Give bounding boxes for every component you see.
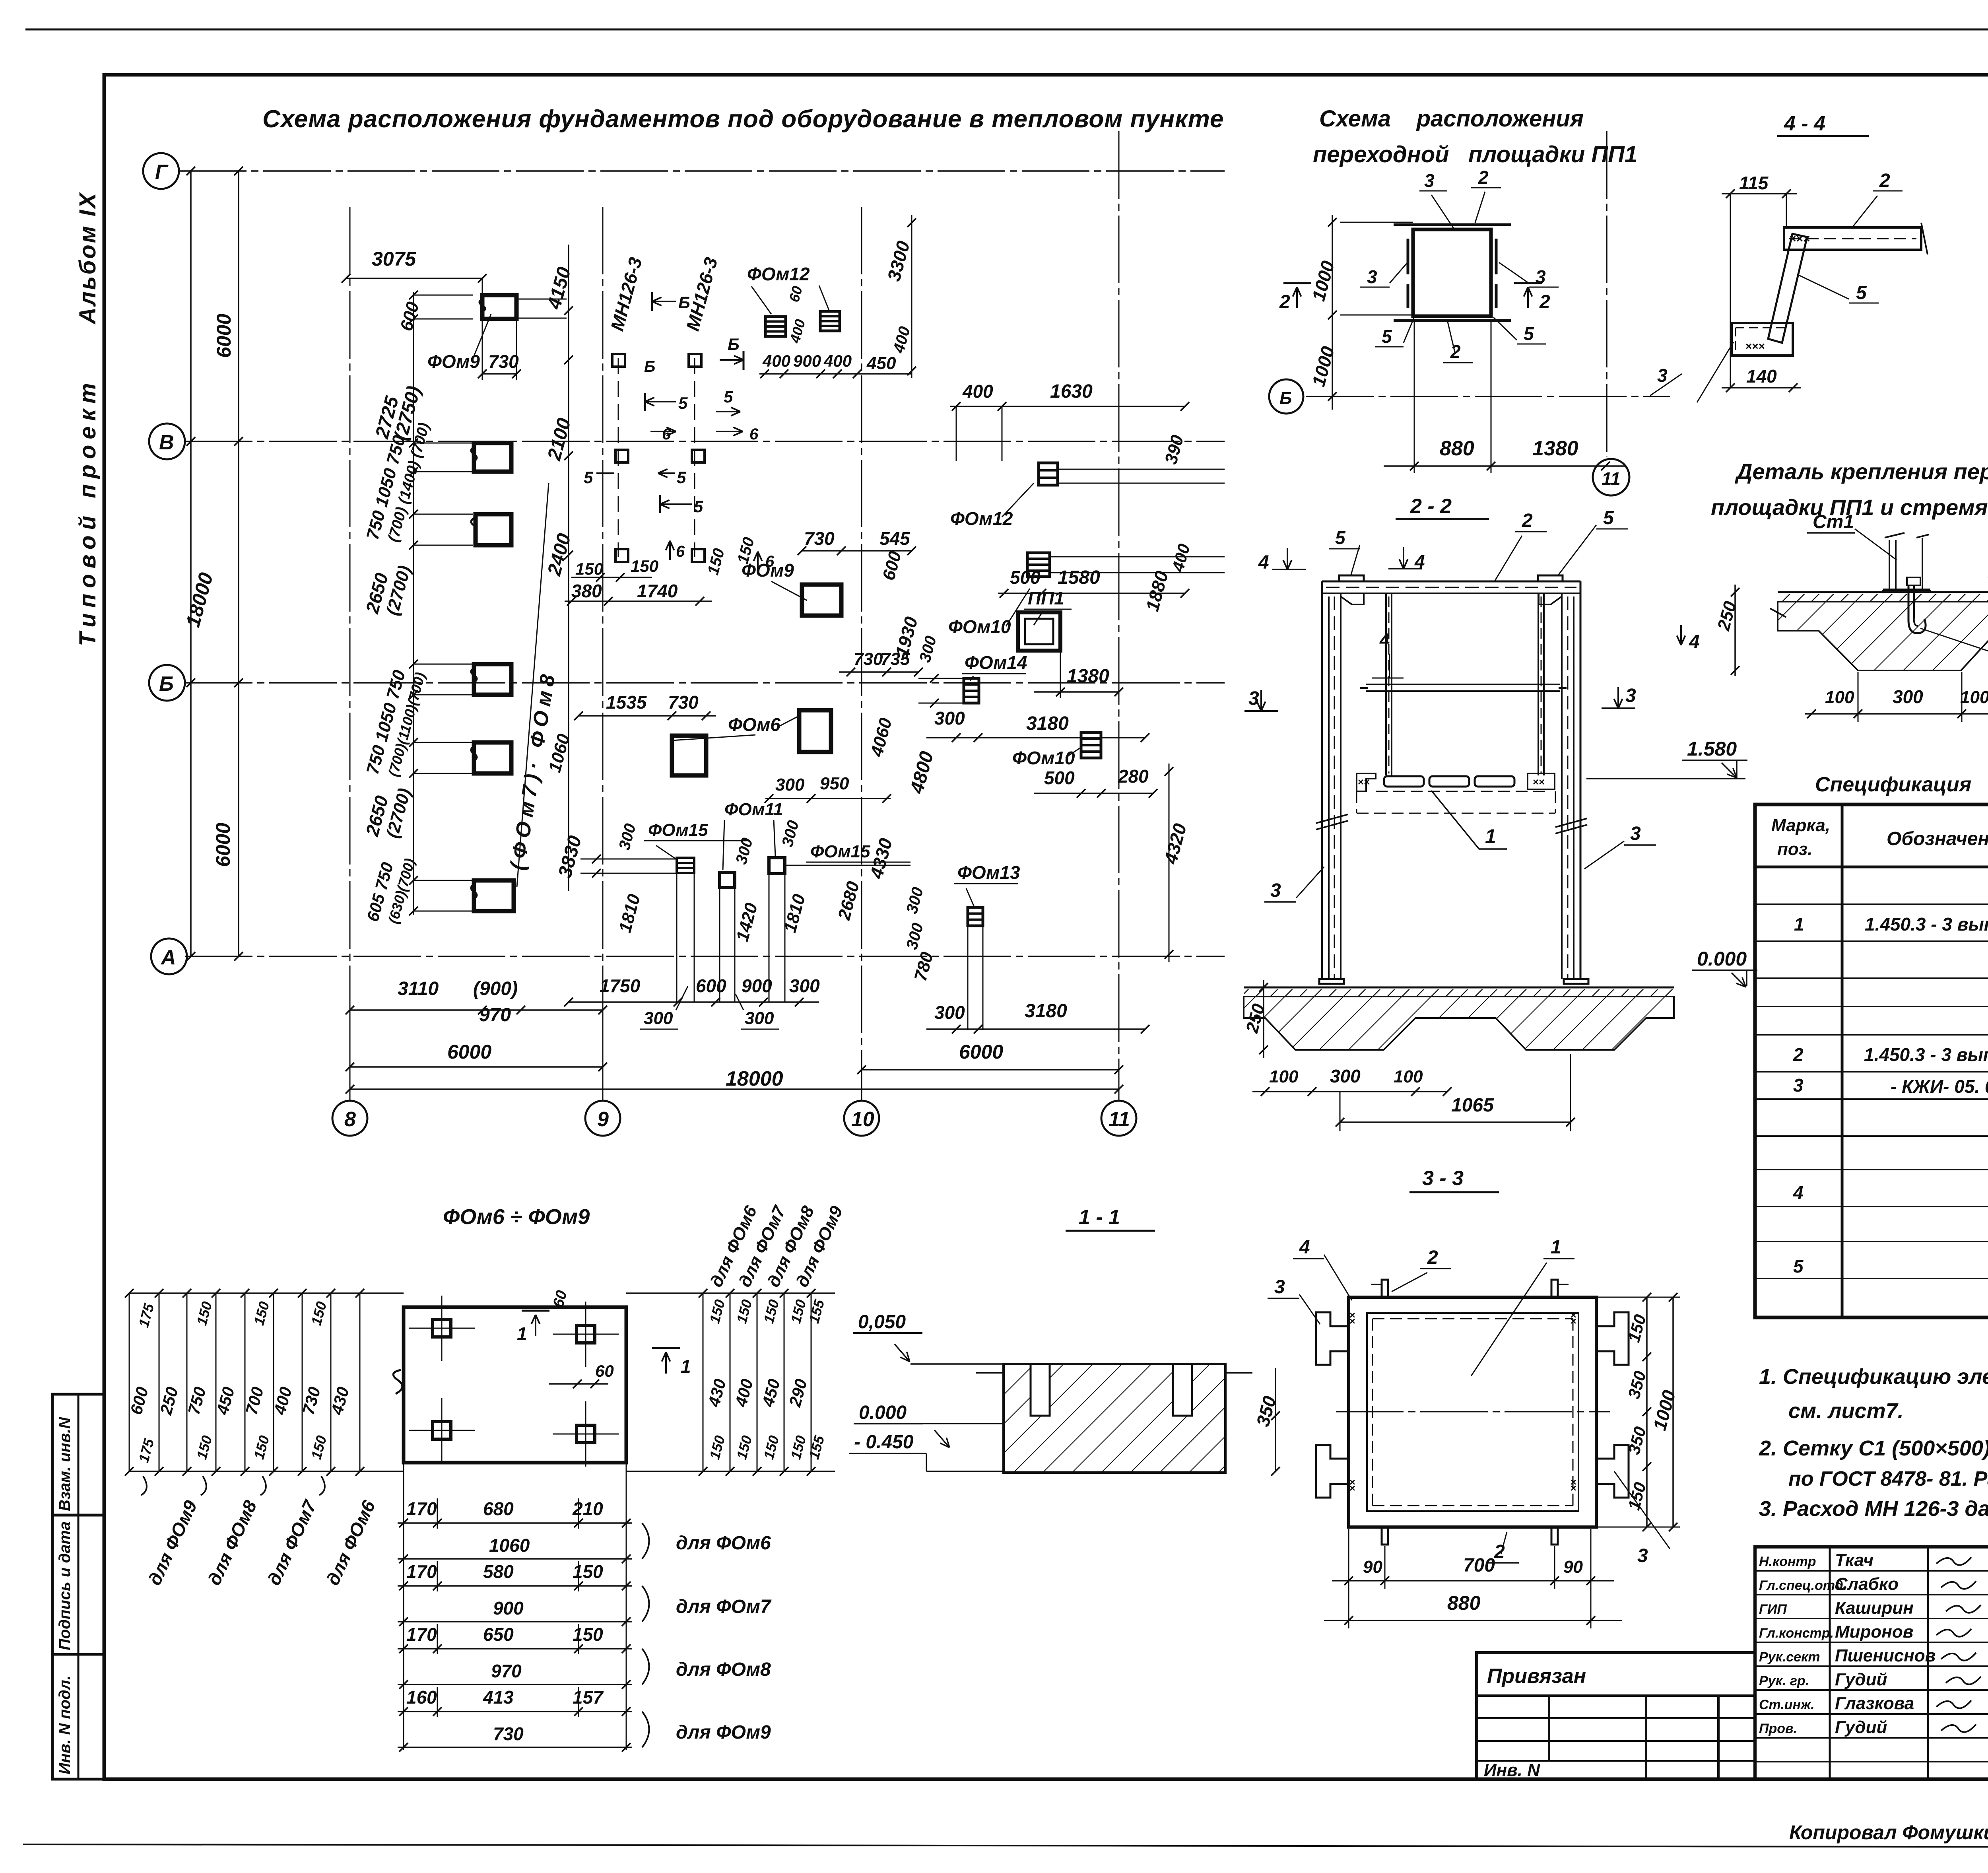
svg-text:××: ××	[1567, 1479, 1579, 1491]
svg-text:ГИП: ГИП	[1759, 1602, 1787, 1617]
svg-text:Инв. N подл.: Инв. N подл.	[56, 1675, 74, 1774]
mid dim ladder 4150/2100/2400	[568, 245, 569, 891]
svg-text:450: 450	[866, 354, 896, 373]
svg-text:Инв. N: Инв. N	[1484, 1760, 1540, 1780]
svg-text:4: 4	[1379, 630, 1390, 650]
svg-text:90: 90	[1363, 1557, 1382, 1577]
svg-text:Гудий: Гудий	[1835, 1670, 1887, 1689]
svg-text:для ФОм6: для ФОм6	[676, 1533, 771, 1554]
svg-text:Н.контр: Н.контр	[1759, 1554, 1816, 1569]
right dims 150 350 350 150 1000	[1646, 1297, 1648, 1527]
svg-text:Гудий: Гудий	[1835, 1718, 1887, 1737]
svg-text:1380: 1380	[1067, 666, 1109, 687]
svg-text:1: 1	[681, 1356, 691, 1377]
platform slats	[1384, 776, 1424, 787]
svg-text:5: 5	[677, 468, 686, 487]
section mark 5 row2	[596, 472, 614, 474]
svg-text:1420: 1420	[732, 901, 761, 944]
svg-text:300: 300	[916, 634, 940, 664]
platform frame right	[1528, 773, 1555, 789]
beam 2	[1784, 227, 1921, 250]
section mark 2 right	[1514, 282, 1542, 284]
svg-text:ФОм14: ФОм14	[965, 652, 1027, 673]
bottom tabs	[1382, 1527, 1388, 1545]
svg-text:500: 500	[1044, 767, 1075, 788]
anchor box 3	[1732, 323, 1793, 356]
foundation ФОм8 rect 1	[474, 443, 511, 472]
svg-text:300: 300	[934, 708, 965, 729]
svg-text:1740: 1740	[637, 581, 678, 601]
svg-text:115: 115	[1739, 173, 1769, 193]
svg-text:150: 150	[631, 557, 658, 575]
axis Б line	[1306, 396, 1670, 397]
svg-text:5: 5	[1524, 323, 1534, 344]
svg-text:ФОм10: ФОм10	[1012, 748, 1075, 768]
svg-text:700: 700	[1463, 1555, 1495, 1576]
platform left bracket	[1357, 773, 1376, 791]
МН126-3 anchor squares row3	[615, 549, 628, 562]
extension lines bottom	[349, 1010, 351, 1102]
svg-text:400: 400	[786, 317, 808, 345]
svg-text:4060: 4060	[867, 716, 896, 759]
svg-text:3180: 3180	[1026, 713, 1069, 734]
svg-text:А: А	[160, 946, 176, 969]
svg-text:18000: 18000	[726, 1067, 783, 1090]
svg-text:для ФОм8: для ФОм8	[204, 1497, 261, 1589]
svg-text:3: 3	[1248, 688, 1259, 709]
svg-text:××: ××	[1358, 776, 1370, 788]
section mark 5 mid	[645, 401, 676, 402]
break marks posts	[1316, 814, 1348, 823]
svg-text:2100: 2100	[544, 416, 575, 463]
svg-text:5: 5	[584, 468, 593, 487]
foundation ФОм9 rect top	[482, 295, 516, 319]
svg-text:170: 170	[406, 1498, 437, 1519]
svg-text:1750: 1750	[600, 975, 641, 996]
svg-text:155: 155	[806, 1297, 827, 1325]
svg-text:3: 3	[1424, 170, 1435, 191]
label 3 leader	[1697, 342, 1734, 402]
pp1 top rail	[1394, 223, 1511, 226]
svg-text:для ФОм9: для ФОм9	[676, 1722, 771, 1743]
bottom dim 18000	[350, 1088, 1119, 1090]
axis circle В	[149, 424, 185, 459]
svg-text:по ГОСТ 8478- 81. Расход: по ГОСТ 8478- 81. Расход дан в специфика…	[1788, 1467, 1988, 1490]
svg-text:150: 150	[573, 1624, 603, 1645]
platform skirt dashed	[1357, 813, 1555, 814]
svg-text:150: 150	[760, 1298, 782, 1325]
svg-text:Миронов: Миронов	[1835, 1622, 1913, 1642]
svg-text:3: 3	[1793, 1075, 1804, 1096]
J-hook anchor	[1908, 585, 1926, 633]
ФОм10 striped square	[1027, 553, 1050, 577]
svg-text:170: 170	[406, 1561, 437, 1582]
svg-text:переходной площадки ПП1: переходной площадки ПП1	[1313, 142, 1637, 167]
column line 11	[1118, 131, 1120, 1102]
svg-text:Гл.спец.отд.: Гл.спец.отд.	[1759, 1578, 1847, 1593]
svg-text:430: 430	[704, 1377, 730, 1409]
svg-text:600: 600	[879, 549, 905, 582]
bottom dim chain 3110 (900) 970	[350, 1009, 603, 1011]
svg-text:155: 155	[806, 1433, 827, 1461]
inner strut right	[1538, 593, 1539, 775]
svg-text:300: 300	[779, 818, 802, 849]
svg-text:300: 300	[903, 885, 927, 915]
svg-text:950: 950	[820, 774, 849, 793]
svg-text:ФОм15: ФОм15	[810, 842, 870, 861]
svg-text:970: 970	[491, 1661, 522, 1681]
corner gussets	[1341, 593, 1364, 604]
axis circle А	[151, 938, 187, 974]
svg-text:18000: 18000	[182, 570, 217, 630]
section mark 2 left	[1283, 282, 1311, 284]
axis line Г	[179, 170, 1225, 172]
svg-text:100: 100	[1825, 688, 1854, 707]
svg-text:Схема расположения: Схема расположения	[1319, 106, 1584, 132]
break marks floor	[1770, 608, 1786, 617]
svg-text:3300: 3300	[883, 239, 914, 284]
МН126-3 anchor squares row2	[615, 450, 628, 462]
section 1 marks right	[652, 1348, 653, 1349]
svg-text:Г: Г	[155, 161, 169, 184]
svg-text:ФОм13: ФОм13	[957, 862, 1020, 883]
axis line Б	[185, 682, 1225, 684]
svg-text:150: 150	[760, 1434, 782, 1461]
base plates	[1319, 979, 1344, 984]
svg-text:4150: 4150	[544, 265, 575, 312]
label 4 platform	[1389, 654, 1390, 678]
svg-text:4 - 4: 4 - 4	[1784, 112, 1825, 135]
привязан box	[1477, 1653, 1755, 1779]
svg-text:290: 290	[785, 1377, 811, 1409]
svg-text:1535: 1535	[606, 692, 647, 713]
svg-text:××: ××	[1346, 1312, 1358, 1324]
svg-text:700: 700	[242, 1385, 267, 1416]
svg-text:Пров.: Пров.	[1759, 1721, 1797, 1736]
svg-text:Копировал Фомушкина: Копировал Фомушкина	[1789, 1821, 1988, 1844]
dim 3075	[346, 278, 482, 279]
left dim line 18000	[190, 171, 192, 956]
axis 11 circle	[1593, 459, 1629, 495]
svg-text:880: 880	[1440, 437, 1474, 460]
svg-text:160: 160	[406, 1687, 437, 1708]
svg-text:150: 150	[706, 1298, 728, 1325]
svg-text:Спецификация к схеме распо: Спецификация к схеме расположения перехо…	[1815, 773, 1988, 796]
svg-text:Деталь крепления переходной: Деталь крепления переходной	[1735, 459, 1988, 484]
svg-text:×××: ×××	[1745, 340, 1765, 352]
svg-text:ФОм9: ФОм9	[742, 560, 794, 581]
svg-text:4800: 4800	[906, 749, 938, 796]
S hook plate edge	[393, 1370, 402, 1394]
svg-text:6: 6	[749, 426, 759, 443]
svg-text:2680: 2680	[834, 879, 863, 923]
ФОм10 striped square #2	[1081, 732, 1101, 758]
svg-text:300: 300	[644, 1008, 673, 1028]
axis 11 vline	[1606, 131, 1607, 457]
svg-text:Ткач: Ткач	[1835, 1550, 1873, 1570]
svg-text:ПП1: ПП1	[1028, 588, 1064, 608]
svg-text:6: 6	[676, 543, 685, 560]
svg-text:150: 150	[706, 1434, 728, 1461]
svg-text:6000: 6000	[213, 314, 235, 358]
svg-text:см. лист7.: см. лист7.	[1788, 1399, 1904, 1423]
svg-text:210: 210	[572, 1498, 603, 1519]
axis line В	[185, 441, 1225, 442]
svg-text:970: 970	[479, 1005, 511, 1026]
svg-text:170: 170	[406, 1624, 437, 1645]
svg-text:280: 280	[1118, 766, 1149, 787]
svg-text:150: 150	[308, 1300, 330, 1327]
floor body with pits	[1244, 997, 1674, 1050]
floor line	[1778, 591, 1988, 593]
svg-text:3: 3	[1625, 685, 1636, 706]
svg-text:1.580: 1.580	[1687, 738, 1737, 760]
svg-text:140: 140	[1746, 366, 1777, 387]
svg-text:Привязан: Привязан	[1487, 1665, 1586, 1688]
svg-text:5: 5	[1793, 1256, 1804, 1277]
svg-text:Глазкова: Глазкова	[1835, 1694, 1914, 1713]
sheet bottom edge line	[23, 1844, 1988, 1848]
left dim line 6000 upper	[238, 171, 239, 441]
center lines	[1336, 1411, 1610, 1413]
svg-text:2 - 2: 2 - 2	[1410, 495, 1452, 518]
svg-text:10: 10	[851, 1108, 874, 1131]
svg-text:2: 2	[1793, 1044, 1804, 1065]
top tabs	[1382, 1280, 1388, 1297]
ФОм12 striped square right	[1039, 463, 1058, 485]
svg-text:8: 8	[344, 1108, 356, 1131]
svg-text:250: 250	[156, 1385, 182, 1417]
svg-text:Обозначение: Обозначение	[1887, 828, 1988, 849]
svg-text:3 - 3: 3 - 3	[1422, 1167, 1464, 1190]
svg-text:400: 400	[890, 324, 914, 355]
svg-text:9: 9	[597, 1108, 609, 1131]
svg-text:2: 2	[1427, 1247, 1438, 1268]
svg-text:Гл.констр.: Гл.констр.	[1759, 1626, 1834, 1641]
svg-text:90: 90	[1563, 1557, 1583, 1577]
svg-text:3: 3	[1367, 266, 1377, 287]
svg-text:Ст1: Ст1	[1813, 511, 1854, 532]
svg-text:1380: 1380	[1532, 437, 1578, 460]
svg-text:Б: Б	[644, 358, 655, 375]
ФОм6 rect 1	[672, 736, 706, 775]
svg-text:730: 730	[854, 649, 883, 669]
svg-text:100: 100	[1394, 1067, 1423, 1086]
svg-text:300: 300	[1330, 1066, 1361, 1086]
svg-text:4: 4	[1299, 1237, 1310, 1258]
svg-text:1000: 1000	[1649, 1388, 1679, 1433]
svg-text:150: 150	[250, 1434, 272, 1461]
svg-text:3110: 3110	[398, 978, 439, 999]
ext lines from rect	[516, 299, 567, 300]
svg-text:0.000: 0.000	[1697, 948, 1747, 970]
axis Б circle	[1269, 379, 1303, 414]
svg-text:Взам. инв.N: Взам. инв.N	[56, 1417, 74, 1511]
ФОм9 rect #2	[802, 585, 841, 616]
corner channels right	[1598, 1312, 1629, 1365]
svg-text:150: 150	[193, 1300, 215, 1327]
axis circle Г	[143, 153, 179, 189]
ФОм13 striped square	[968, 907, 983, 926]
dim vline 1000 1000	[1332, 215, 1333, 410]
svg-text:для ФОм7: для ФОм7	[263, 1496, 321, 1589]
svg-text:Типовой проект: Типовой проект	[75, 377, 101, 646]
foundation rect row A	[474, 880, 514, 911]
svg-text:730: 730	[804, 528, 835, 549]
svg-text:2: 2	[1450, 341, 1461, 362]
svg-text:300: 300	[1893, 686, 1923, 707]
brace 5	[1768, 234, 1807, 343]
svg-text:××: ××	[1346, 1479, 1358, 1491]
svg-text:1880: 1880	[1142, 569, 1172, 614]
svg-text:730: 730	[668, 692, 699, 713]
svg-text:1000: 1000	[1308, 344, 1338, 389]
svg-text:5: 5	[1382, 326, 1392, 347]
column line 9	[602, 207, 604, 1102]
svg-text:ФОм12: ФОм12	[950, 508, 1013, 529]
foundation rect on axis Б	[474, 664, 511, 695]
svg-text:900: 900	[493, 1598, 524, 1618]
svg-text:для ФОм6: для ФОм6	[322, 1497, 379, 1589]
mid rail	[1366, 684, 1560, 685]
svg-text:680: 680	[483, 1498, 514, 1519]
svg-text:400: 400	[962, 381, 993, 402]
svg-text:450: 450	[213, 1385, 238, 1417]
ФОм14 striped square	[964, 678, 979, 703]
svg-text:МН126-3: МН126-3	[606, 255, 646, 333]
svg-text:для ФОм7: для ФОм7	[676, 1596, 772, 1617]
svg-text:××: ××	[1533, 776, 1545, 788]
svg-text:для ФОм8: для ФОм8	[676, 1659, 771, 1680]
svg-text:300: 300	[789, 975, 820, 996]
svg-text:300: 300	[615, 822, 639, 852]
СТ1 post	[1889, 540, 1890, 589]
svg-text:5: 5	[724, 387, 733, 406]
svg-text:150: 150	[250, 1300, 272, 1327]
section mark Б top	[652, 301, 676, 302]
outer square	[1349, 1297, 1596, 1527]
svg-text:1: 1	[1551, 1237, 1561, 1258]
left stamp column	[52, 1394, 104, 1779]
svg-text:150: 150	[733, 1298, 755, 1325]
svg-text:600: 600	[396, 299, 423, 333]
column line 8	[349, 207, 351, 1102]
sheet top edge line	[25, 29, 1988, 31]
svg-text:3: 3	[1274, 1277, 1285, 1298]
svg-text:3: 3	[1630, 823, 1641, 844]
svg-text:390: 390	[1161, 433, 1187, 466]
axis circle Б	[149, 665, 185, 701]
svg-text:ФОм15: ФОм15	[648, 820, 708, 840]
svg-text:545: 545	[879, 528, 911, 549]
svg-text:157: 157	[573, 1687, 604, 1708]
ФОм12 striped squares	[765, 317, 786, 336]
svg-text:Ст.инж.: Ст.инж.	[1759, 1697, 1815, 1712]
svg-text:730: 730	[488, 351, 519, 372]
svg-text:Альбом IX: Альбом IX	[75, 191, 101, 325]
svg-text:150: 150	[308, 1434, 330, 1461]
svg-text:600: 600	[696, 975, 726, 996]
svg-text:1 - 1: 1 - 1	[1079, 1206, 1120, 1229]
svg-text:5: 5	[694, 497, 703, 516]
svg-text:11: 11	[1602, 468, 1621, 489]
svg-text:1065: 1065	[1451, 1095, 1494, 1116]
svg-text:2: 2	[1539, 291, 1550, 313]
left ladder rails	[129, 1292, 404, 1294]
svg-text:(900): (900)	[473, 978, 518, 999]
ext lines from squares	[580, 859, 677, 860]
svg-text:380: 380	[571, 581, 602, 601]
pp1 side channels	[1407, 239, 1409, 274]
svg-text:4320: 4320	[1160, 821, 1190, 867]
svg-text:Марка,: Марка,	[1771, 816, 1830, 835]
S hooks on rects	[471, 447, 477, 461]
dim 880 1380	[1384, 465, 1626, 467]
svg-text:Рук. гр.: Рук. гр.	[1759, 1673, 1809, 1688]
concrete body	[1778, 602, 1988, 670]
anchor squares	[433, 1319, 451, 1337]
svg-text:4: 4	[1689, 631, 1700, 653]
svg-text:4: 4	[1258, 552, 1269, 573]
svg-text:Каширин: Каширин	[1835, 1598, 1914, 1618]
svg-text:ФОм12: ФОм12	[747, 264, 810, 284]
svg-text:1.450.3 - 3 вып. 1. 4.1: 1.450.3 - 3 вып. 1. 4.1	[1864, 1044, 1988, 1065]
svg-text:750: 750	[184, 1385, 210, 1416]
svg-text:350: 350	[1624, 1369, 1650, 1401]
svg-text:3: 3	[1270, 880, 1281, 901]
svg-text:150: 150	[704, 546, 728, 577]
svg-text:735: 735	[881, 649, 910, 669]
block stubs	[976, 1372, 1004, 1374]
left post	[1321, 581, 1323, 979]
svg-text:- 0.450: - 0.450	[854, 1432, 914, 1453]
axis line А	[185, 956, 1225, 957]
svg-text:780: 780	[911, 950, 937, 983]
foundation ФОм8 rect 2	[476, 514, 511, 545]
svg-text:2: 2	[1522, 510, 1533, 531]
section mark 1 right	[652, 1347, 680, 1349]
svg-text:2: 2	[1478, 167, 1489, 188]
svg-text:150: 150	[573, 1561, 603, 1582]
leaders to block	[911, 1363, 1004, 1365]
svg-text:100: 100	[1960, 688, 1988, 707]
svg-text:580: 580	[483, 1561, 514, 1582]
label 1 leader	[1431, 791, 1479, 849]
braces and для labels	[642, 1523, 649, 1559]
svg-text:1. Спецификацию элементов мо: 1. Спецификацию элементов монолитной кон…	[1759, 1365, 1988, 1389]
foundation rect below Б	[474, 742, 511, 773]
section mark 5 lower	[660, 503, 692, 505]
inner strut left	[1385, 593, 1387, 775]
svg-text:2400: 2400	[544, 531, 575, 578]
МН columns dashed	[618, 358, 619, 557]
pp1 square outer	[1413, 229, 1491, 316]
right ladder rails	[626, 1292, 835, 1294]
svg-text:3: 3	[1657, 365, 1668, 386]
svg-text:450: 450	[758, 1377, 784, 1409]
bolt head	[1907, 577, 1920, 585]
bottom dim 6000	[350, 1066, 603, 1068]
svg-text:Б: Б	[159, 672, 174, 696]
signature table	[1755, 1547, 1988, 1779]
svg-text:400: 400	[1168, 542, 1194, 574]
svg-text:1: 1	[517, 1323, 527, 1344]
svg-text:3075: 3075	[372, 248, 416, 270]
svg-text:5: 5	[1856, 282, 1867, 303]
svg-text:175: 175	[135, 1436, 157, 1464]
svg-text:3: 3	[1637, 1545, 1648, 1566]
svg-text:2. Сетку С1 (500×500) изготови: 2. Сетку С1 (500×500) изготовить из сетк…	[1759, 1436, 1988, 1460]
